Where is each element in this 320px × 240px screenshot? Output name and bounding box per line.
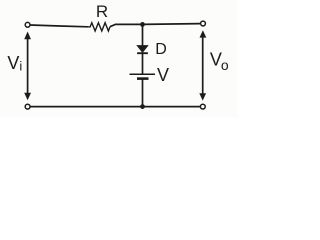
svg-text:R: R	[96, 2, 108, 21]
arrowhead Vo down	[199, 93, 206, 100]
wire battery to bottom junction	[142, 79, 144, 107]
node: input terminal - (bottom-left)	[25, 104, 30, 109]
wire top-left segment	[30, 25, 88, 27]
node: input terminal + (top-left)	[25, 22, 30, 27]
junction top node	[140, 22, 145, 27]
arrowhead Vi up	[24, 32, 31, 40]
wire bottom	[30, 106, 200, 108]
node: output terminal + (top-right)	[201, 21, 206, 26]
diode D (anode top, cathode bar below)	[137, 46, 148, 54]
arrowhead Vo up	[200, 30, 207, 37]
resistor R	[88, 23, 110, 31]
voltage marker line Vo	[202, 36, 204, 96]
wire junction down to diode	[142, 24, 144, 46]
wire diode to battery	[142, 54, 144, 74]
battery V (long plate top, short thick plate below)	[130, 74, 156, 78]
svg-text:Vo: Vo	[210, 50, 229, 73]
wire junction to output terminal	[143, 23, 201, 26]
junction bottom node	[140, 104, 145, 109]
arrowhead Vi down	[24, 93, 31, 100]
svg-text:D: D	[155, 41, 167, 58]
voltage marker line Vi	[27, 37, 29, 95]
svg-text:Vi: Vi	[7, 53, 22, 74]
svg-text:V: V	[157, 65, 169, 85]
wire resistor to junction	[110, 24, 143, 26]
node: output terminal - (bottom-right)	[200, 104, 205, 109]
